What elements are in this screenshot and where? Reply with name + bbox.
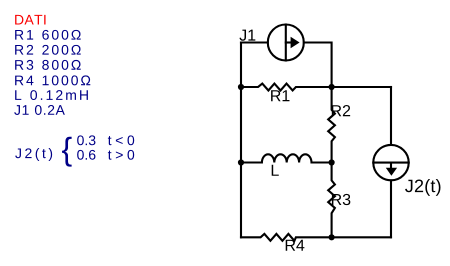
wire bottom to right corner <box>332 236 391 238</box>
resistor R4 <box>241 234 332 241</box>
wire right column lower <box>390 180 392 237</box>
legend title DATI <box>15 15 45 25</box>
label R2 <box>332 105 350 116</box>
J2 arrowhead <box>386 168 397 176</box>
legend R1 value <box>15 30 81 40</box>
J2 case cond t<0 <box>108 135 134 145</box>
J2 case value 0.6 <box>77 150 95 160</box>
wire left column <box>240 43 242 238</box>
brace <box>62 137 72 167</box>
legend J1 value <box>14 105 65 115</box>
label J1 <box>239 30 255 41</box>
junction node R3/R4 <box>329 234 335 240</box>
junction node left-R1 <box>238 84 244 90</box>
resistor R3 <box>328 163 335 238</box>
J2 case cond t>0 <box>108 150 134 160</box>
J2 arrow shaft <box>390 163 392 169</box>
J1 arrow shaft <box>286 41 291 43</box>
resistor R1 <box>241 84 332 91</box>
J1 arrowhead <box>291 37 300 48</box>
legend R2 value <box>15 45 81 55</box>
label R4 <box>286 240 305 251</box>
wire top-left horizontal to J1 <box>241 41 268 43</box>
label R3 <box>332 194 350 205</box>
legend L value <box>15 90 88 100</box>
label L <box>272 165 279 176</box>
wire node B to right column <box>332 86 391 88</box>
current source J2 circle <box>373 145 408 180</box>
J2 diameter line <box>373 162 408 164</box>
resistor R2 <box>328 87 335 163</box>
legend R4 value <box>15 75 90 85</box>
wire right column upper <box>390 87 392 145</box>
inductor L <box>241 154 332 162</box>
J2 case value 0.3 <box>77 135 95 145</box>
legend J2(t) label <box>15 148 52 161</box>
J1 diameter line <box>285 25 287 61</box>
junction node left-L <box>238 159 244 165</box>
legend R3 value <box>15 60 81 70</box>
label J2(t) <box>405 179 440 196</box>
wire J1 right to top corner down to node B <box>304 43 332 88</box>
label R1 <box>271 90 289 101</box>
junction node B (R1/R2) <box>329 84 335 90</box>
junction node R2/L <box>329 159 335 165</box>
current source J1 circle <box>268 25 304 61</box>
